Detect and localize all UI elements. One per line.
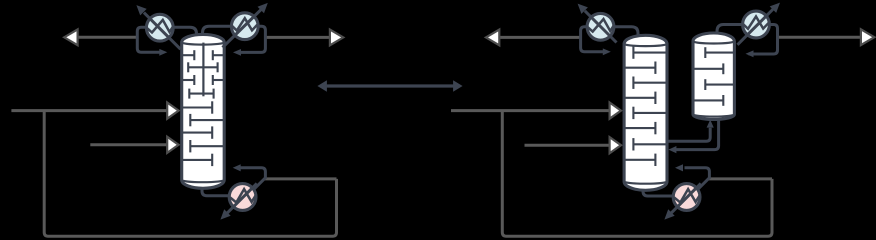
tray row 5 (from left wall) <box>183 101 213 113</box>
arrow: vapor up into side column <box>707 120 714 128</box>
tray C2 row 1 (from right wall) <box>633 46 666 58</box>
arrow: distillate product out (left) <box>64 29 77 45</box>
wire: distillate product line from main condenser <box>499 36 581 39</box>
column C2: main distillation column shell <box>624 35 667 190</box>
tray C2 row 6 (from left wall) <box>625 122 655 134</box>
tray row 2 left (from wall) <box>188 62 203 72</box>
reboiler B2 (pink heat exchanger) <box>673 184 700 211</box>
wire: main column bottoms to reboiler 2 <box>643 189 676 197</box>
zigzag coil of condenser E3 <box>587 19 613 32</box>
tray row 8 (from right wall) <box>190 140 223 152</box>
tray C3 row 4 (from left wall) <box>694 95 723 106</box>
zigzag coil of condenser E2 <box>232 18 258 30</box>
arrow: equivalence double-headed arrow <box>317 80 462 92</box>
wire: feed 1 line into dividing-wall column <box>11 109 167 112</box>
wire: reboiler heating line <box>226 183 256 213</box>
arrow: feed 2 into column <box>167 137 178 153</box>
arrow: side product out (far right) <box>861 29 874 45</box>
tray C2 row 3 (from right wall) <box>633 77 666 89</box>
wire: reboiler 2 heating line <box>670 183 700 213</box>
arrow: side product out (right) <box>330 30 343 46</box>
wire: vapor riser main column to condenser <box>614 27 638 37</box>
wire: vapor riser to right condenser <box>203 26 233 36</box>
tray row 6 (from right wall) <box>190 114 223 126</box>
arrow: distillate product out (left, right diagram) <box>486 30 499 46</box>
wire: bottoms product line from reboiler 2 <box>708 177 772 180</box>
arrow: reflux into column top-left <box>159 49 167 56</box>
arrow: coolant out up-left <box>136 5 146 15</box>
reboiler B1 (pink heat exchanger) <box>229 184 256 211</box>
column C1: dividing-wall distillation column shell <box>182 34 225 188</box>
arrow: liquid into main column <box>668 146 676 153</box>
arrow: coolant out up-right <box>258 3 268 13</box>
wire: column bottoms to reboiler <box>202 186 231 196</box>
arrow: heating out down-left <box>220 209 230 219</box>
tray row 3 right (from right wall) <box>213 75 224 85</box>
wire: right condenser outlet and reflux loop <box>240 26 265 52</box>
wire: feed 2 line into main column <box>525 144 610 147</box>
arrow: reflux into side column <box>746 50 754 57</box>
wire: vapor riser to left condenser <box>172 27 197 36</box>
wire: reboiler vapor return loop <box>241 168 266 191</box>
arrow: boilup into column bottom <box>233 164 241 171</box>
tray C3 row 1 (from right wall) <box>705 47 733 58</box>
wire: main condenser coolant line <box>585 11 617 43</box>
arrow: reflux into column top-right <box>233 49 241 56</box>
tray row 3 left (from left wall) <box>183 75 195 85</box>
condenser E1 (left, light blue heat exchanger) <box>146 14 173 41</box>
tray row 7 (from left wall) <box>183 126 213 138</box>
wire: feed 2 line into dividing-wall column <box>90 143 167 146</box>
arrow: feed 2 into main column <box>610 137 621 153</box>
wire: vapor draw from main column to side column bottom <box>666 128 710 141</box>
wire: feed 1 line into main column <box>451 109 610 112</box>
wire: side condenser outlet and reflux loop <box>749 25 778 55</box>
tray row 4 (below wall, both end ticks) <box>189 89 213 99</box>
tray row 2 right (from wall) <box>203 62 217 72</box>
wire: bottoms product line from reboiler <box>264 177 337 180</box>
tray C2 row 7 (from right wall) <box>633 138 666 150</box>
wire: vapor riser side column to condenser <box>717 25 744 35</box>
tray C2 row 4 (from left wall) <box>625 92 655 104</box>
dividing wall inside column C1 <box>202 43 204 97</box>
wire: left condenser coolant line <box>144 13 181 50</box>
zigzag coil of condenser E4 <box>743 17 769 29</box>
arrow: heating out down-left (right diagram) <box>664 209 674 219</box>
condenser E3 (main column, light blue heat exchanger) <box>587 13 614 40</box>
wire: side product line from side condenser <box>778 36 862 39</box>
arrow: feed 1 into main column <box>610 103 621 119</box>
arrow: coolant out up-right (side) <box>770 3 780 13</box>
column C3: side distillation column shell <box>693 33 734 120</box>
tray C2 row 8 (from left wall) <box>625 154 655 166</box>
wire: reboiler 2 vapor return loop <box>685 168 710 191</box>
wire: side condenser coolant line <box>737 9 773 45</box>
arrow: coolant out up-left (main) <box>578 4 588 14</box>
condenser E4 (side column, light blue heat exchanger) <box>743 11 770 38</box>
arrow: boilup into main column bottom <box>675 164 683 171</box>
zigzag coil of condenser E1 <box>147 20 173 33</box>
arrow: feed 1 into column <box>167 103 178 119</box>
tray C2 row 5 (from right wall) <box>633 107 666 119</box>
wire: bottoms recycle loop (right down, bottom, left up) <box>44 111 336 237</box>
wire: side product line from right condenser <box>265 36 330 39</box>
zigzag coil of reboiler B1 <box>230 189 256 202</box>
tray row 1 left (from left wall) <box>183 50 195 60</box>
tray C3 row 3 (from right wall) <box>705 79 733 90</box>
wire: main condenser outlet and reflux loop <box>581 27 604 52</box>
tray C3 row 2 (from left wall) <box>694 63 723 74</box>
wire: liquid return from side column bottom to main column <box>676 116 719 150</box>
arrow: reflux into main column <box>603 48 611 55</box>
tray row 9 (from left wall) <box>183 154 213 166</box>
wire: bottoms recycle loop (right diagram) <box>502 111 772 237</box>
tray C2 row 2 (from left wall) <box>625 62 655 74</box>
wire: right condenser coolant line <box>223 9 262 47</box>
zigzag coil of reboiler B2 <box>674 189 700 202</box>
condenser E2 (right, light blue heat exchanger) <box>231 13 258 40</box>
wire: distillate product line from left condenser <box>77 36 137 39</box>
tray row 1 right (from right wall) <box>213 50 224 60</box>
wire: left condenser outlet and reflux loop <box>137 27 160 52</box>
